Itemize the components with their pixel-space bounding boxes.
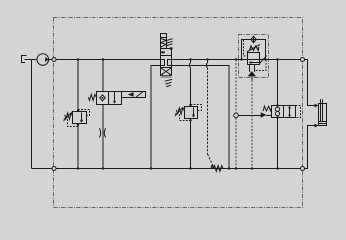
cylinder C1: [319, 99, 327, 125]
enclosure relief-valve assembly frame: [239, 35, 269, 78]
wire RV2 riser with hop: [189, 60, 190, 169]
node return at RV2: [189, 167, 191, 169]
tank T1: [22, 56, 27, 63]
relief valve RV1: [63, 112, 86, 124]
node return at RA drain: [251, 167, 253, 169]
V2 X box: [161, 68, 172, 76]
pilot line RV2 bottom left (dashed): [180, 114, 191, 120]
pilot line RV2 top right (dashed): [191, 105, 202, 111]
pump P1: [37, 54, 49, 66]
pilot RA left dashed: [244, 40, 248, 56]
port circle return right: [301, 167, 305, 171]
wire riser RV1 lower: [77, 124, 79, 169]
pilot RA right dashed: [255, 60, 266, 71]
node return at V2 drain: [150, 167, 152, 169]
wire check bypass loop: [242, 40, 266, 60]
relief valve RV2: [175, 107, 198, 119]
port circle return left: [52, 167, 56, 171]
node main at pilot drop: [206, 58, 208, 60]
orifice throttle: [99, 128, 105, 137]
RA drain passage: [248, 65, 256, 81]
V2 middle box ports: [161, 56, 172, 68]
wire tank drop left: [31, 60, 33, 169]
node return at RV1: [77, 167, 79, 169]
main valve RA box: [248, 53, 260, 65]
V2 spring column: [161, 34, 167, 49]
node main at RV2 riser: [189, 58, 191, 60]
pilot RA right diagonal: [260, 56, 267, 64]
wire riser V1 lower: [102, 105, 104, 169]
pilot drain dashed to return: [251, 80, 253, 169]
node RV2 top: [189, 104, 191, 106]
node return at V1: [102, 167, 104, 169]
actuator V1 lever: [122, 92, 146, 98]
pilot V3 feedback dashed: [296, 106, 301, 118]
wire riser RV1 upper: [77, 60, 79, 112]
node main line at V1: [102, 58, 104, 60]
spring on return line: [213, 166, 223, 172]
node main line at RV1: [77, 58, 79, 60]
pilot dashed line to node circle: [235, 60, 237, 169]
arrow top port: [315, 104, 319, 108]
spring RA adjustable: [247, 44, 260, 52]
valve V1 2-position: [88, 92, 121, 105]
wire riser V1 upper: [102, 60, 104, 92]
node main at pilot valve drop: [235, 58, 237, 60]
wire return line T: [32, 168, 305, 170]
wire pilot to valve V3: [238, 115, 261, 117]
node return at A-line: [228, 167, 230, 169]
enclosure boundary (power unit dash-dot frame): [54, 18, 303, 208]
V2 top box: [161, 49, 172, 56]
node return at V3: [276, 167, 278, 169]
V2 arrow line with dot: [167, 47, 173, 50]
node RV1 bottom: [77, 124, 79, 126]
wire V3 riser: [277, 60, 279, 169]
wire suction line: [25, 59, 38, 61]
wire cylinder top feed: [305, 60, 315, 106]
V2 side spring marks: [167, 39, 173, 46]
wire main pressure line P: [49, 59, 161, 61]
V2 gray bar: [161, 76, 172, 78]
node RV2 bottom: [189, 119, 191, 121]
node V3 top: [276, 104, 278, 106]
node circle measuring point: [234, 113, 239, 118]
wire cylinder bottom feed: [305, 126, 315, 169]
pilot line RV1 top right (dashed): [78, 110, 90, 116]
V2 bottom spring: [165, 79, 173, 86]
pilot drop dashed with hop: [206, 60, 214, 168]
pilot line RV1 bottom left (dashed): [68, 119, 79, 126]
node main at check loop left: [240, 58, 242, 60]
node main at check loop right: [264, 58, 266, 60]
port circle pump line: [52, 58, 56, 62]
wire A-line reduced pressure: [172, 66, 230, 169]
arrow bottom port: [315, 124, 319, 128]
node V3 bottom: [276, 116, 278, 118]
node main at V3 riser: [276, 58, 278, 60]
port circle pressure right: [301, 58, 305, 62]
check valve diamond: [251, 36, 256, 43]
valve V3 pilot operated 2-position: [261, 106, 296, 118]
node return at pilot: [235, 167, 237, 169]
node RV1 top: [77, 109, 79, 111]
wire V2 drain to return: [151, 66, 161, 169]
